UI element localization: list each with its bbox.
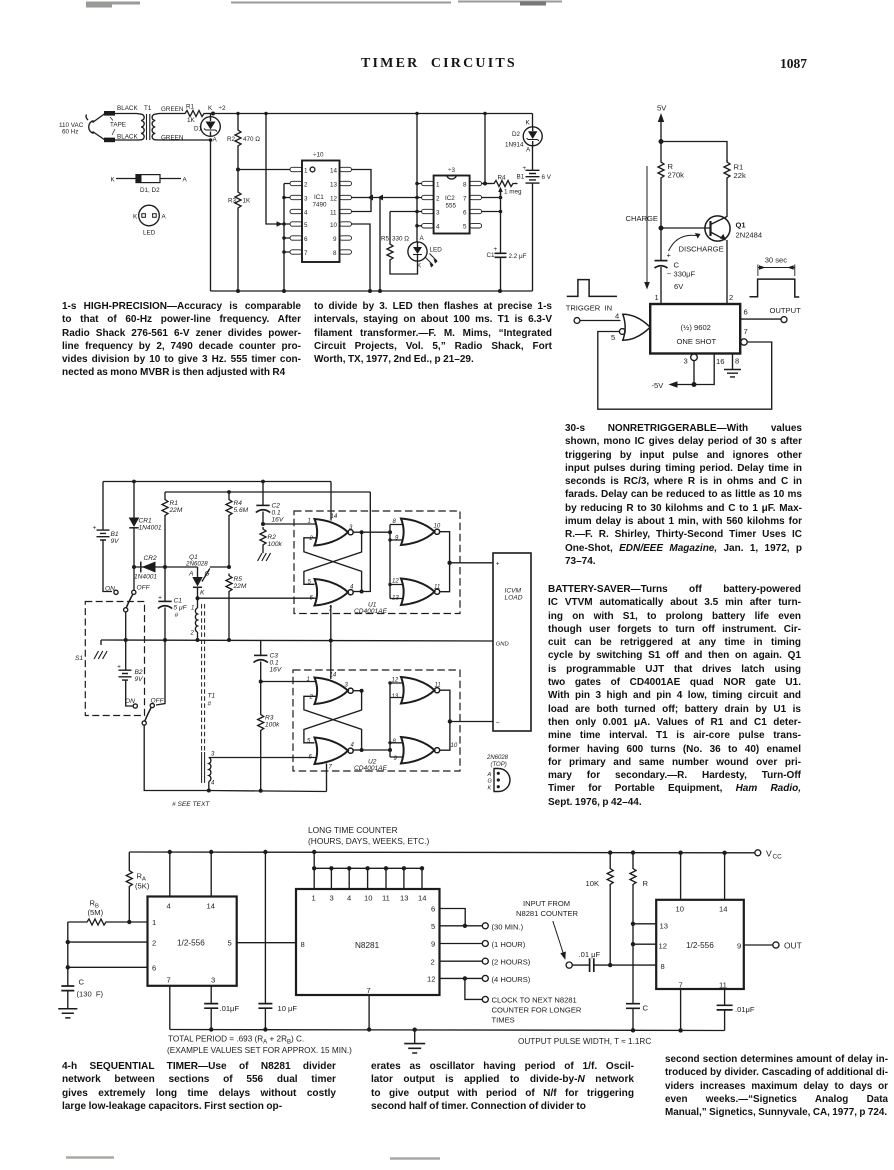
wire IC1 pin 12 row to IC2 pin 2 xyxy=(352,197,418,199)
svg-text:2: 2 xyxy=(436,196,440,203)
svg-text:R: R xyxy=(643,879,649,888)
svg-text:1/2-556: 1/2-556 xyxy=(686,941,714,950)
svg-text:5: 5 xyxy=(463,224,467,231)
svg-text:TOTAL PERIOD = .693 (RA + 2RB): TOTAL PERIOD = .693 (RA + 2RB) C. xyxy=(168,1035,304,1046)
svg-text:6: 6 xyxy=(304,236,308,243)
svg-text:14: 14 xyxy=(719,905,727,914)
svg-text:16: 16 xyxy=(716,357,724,366)
N8281 body xyxy=(296,889,440,995)
junctions on ground rail xyxy=(236,289,240,293)
svg-text:330 Ω: 330 Ω xyxy=(392,236,409,243)
U1 Vcc pin 14 from battery rail xyxy=(330,482,332,521)
wire node down to OFF contact xyxy=(133,567,135,590)
svg-text:11: 11 xyxy=(434,585,440,591)
svg-text:C1: C1 xyxy=(487,252,496,259)
svg-text:3: 3 xyxy=(436,210,440,217)
svg-text:R4: R4 xyxy=(498,175,507,182)
svg-text:1: 1 xyxy=(307,677,310,683)
wire D1 anode down to ground rail xyxy=(210,140,212,291)
U2 gate A xyxy=(315,678,354,705)
svg-text:13: 13 xyxy=(330,182,338,189)
ground symbol at rail left xyxy=(100,640,102,645)
svg-text:2: 2 xyxy=(729,293,733,302)
wire node to Q1 base xyxy=(661,227,711,229)
svg-text:+: + xyxy=(158,595,162,602)
wire Q1 K down to T1 pin 1 xyxy=(197,598,199,608)
svg-text:LED: LED xyxy=(143,230,156,237)
svg-text:7: 7 xyxy=(329,765,333,771)
svg-text:OUTPUT: OUTPUT xyxy=(770,306,802,315)
capacitor C1 xyxy=(500,191,502,254)
svg-text:CD4001AE: CD4001AE xyxy=(354,608,388,615)
svg-text:OFF: OFF xyxy=(137,585,151,592)
svg-text:D2: D2 xyxy=(512,131,521,138)
wire IC1 left bus pins 2-7 xyxy=(284,184,290,292)
svg-text:INPUT FROM: INPUT FROM xyxy=(523,899,570,908)
svg-text:22k: 22k xyxy=(734,171,746,180)
pin 9 output (1 HOUR) xyxy=(440,943,483,945)
DISCHARGE arc arrow xyxy=(669,235,697,251)
svg-text:470 Ω: 470 Ω xyxy=(243,136,260,143)
resistor R5 22M xyxy=(226,574,232,594)
svg-text:6: 6 xyxy=(431,905,435,914)
svg-text:5V: 5V xyxy=(657,104,667,113)
U2 gate C xyxy=(401,677,440,704)
svg-text:0.1: 0.1 xyxy=(270,660,279,667)
svg-text:13: 13 xyxy=(400,894,408,903)
wire to pin 12 xyxy=(633,943,656,945)
wire pin12 row tap to ground rail xyxy=(379,198,381,292)
wire IC2 pin 7 to C1 bus xyxy=(482,197,501,199)
svg-text:4: 4 xyxy=(350,585,354,591)
wire rail tap to IC2 pins 1-4 bus xyxy=(416,114,418,236)
U2 outputs 11/10 tied to load - xyxy=(440,690,450,750)
svg-text:16V: 16V xyxy=(272,517,284,524)
svg-text:5: 5 xyxy=(431,922,435,931)
transformer T1 core xyxy=(147,114,150,140)
svg-text:ICVM: ICVM xyxy=(505,588,522,595)
svg-text:A: A xyxy=(183,177,188,184)
pin 7 to bottom rail xyxy=(680,989,682,1030)
svg-text:K: K xyxy=(200,590,205,597)
caption 1 column 1 xyxy=(62,300,301,380)
svg-text:8: 8 xyxy=(393,739,397,745)
svg-text:11: 11 xyxy=(330,210,337,217)
svg-text:1N4001: 1N4001 xyxy=(139,525,162,532)
battery B2 9V xyxy=(125,640,127,670)
svg-text:# SEE TEXT: # SEE TEXT xyxy=(172,801,210,808)
pin 10 to rail xyxy=(680,853,682,900)
wire node to IC1 pin 1 xyxy=(238,169,290,171)
svg-text:8: 8 xyxy=(735,357,739,366)
resistor RA 5K xyxy=(128,852,130,869)
svg-text:12: 12 xyxy=(427,975,435,984)
svg-text:÷2: ÷2 xyxy=(219,105,226,112)
svg-text:5.6M: 5.6M xyxy=(234,507,249,514)
caption 1 column 2 xyxy=(314,300,552,366)
svg-text:1: 1 xyxy=(304,168,308,175)
ground symbol xyxy=(414,1030,416,1044)
svg-text:9V: 9V xyxy=(111,538,120,545)
black lead marker top xyxy=(104,111,115,116)
IC1 pin stubs and numbers xyxy=(290,167,352,254)
svg-text:+: + xyxy=(496,561,500,568)
svg-text:÷10: ÷10 xyxy=(313,152,324,159)
switched rail (2nd) xyxy=(165,491,370,493)
pin 11 cap .01uF xyxy=(724,989,726,1005)
wire IC1 pin 14 to pin 12 net xyxy=(352,170,372,212)
svg-text:+: + xyxy=(93,525,97,532)
svg-text:13: 13 xyxy=(392,596,399,602)
svg-text:8: 8 xyxy=(661,962,665,971)
svg-text:CC: CC xyxy=(773,854,783,861)
svg-text:11: 11 xyxy=(382,894,390,903)
svg-text:R3: R3 xyxy=(265,715,274,722)
svg-text:(5K): (5K) xyxy=(135,882,150,891)
caption 2: 30-s nonretriggerable xyxy=(565,422,802,568)
svg-text:4: 4 xyxy=(351,743,355,749)
wire node to 556a pin 1 xyxy=(129,921,147,923)
svg-text:60 Hz: 60 Hz xyxy=(62,129,78,136)
svg-text:1: 1 xyxy=(308,519,311,525)
caption 4 column 3 xyxy=(665,1053,888,1119)
svg-text:A: A xyxy=(420,235,425,242)
svg-text:14: 14 xyxy=(418,894,426,903)
pin 14 to rail xyxy=(210,852,212,897)
output waveform xyxy=(750,279,800,297)
ground rail (mid, GND) xyxy=(101,640,493,641)
svg-text:N8281: N8281 xyxy=(355,941,380,950)
capacitor C2 xyxy=(262,482,264,506)
svg-text:(30 MIN.): (30 MIN.) xyxy=(492,923,524,932)
U2 pin 7 to bottom rail xyxy=(326,764,328,792)
junctions on left bus xyxy=(282,196,286,200)
output terminal xyxy=(781,317,787,323)
capacitor C 330uF xyxy=(660,228,662,260)
svg-text:S1: S1 xyxy=(75,655,83,662)
svg-text:8: 8 xyxy=(333,250,337,257)
resistor R2 xyxy=(237,114,239,129)
svg-text:K: K xyxy=(526,120,531,127)
svg-text:2N6028: 2N6028 xyxy=(486,755,509,761)
svg-text:R5: R5 xyxy=(234,576,243,583)
svg-text:9V: 9V xyxy=(135,676,144,683)
svg-text:OUTPUT PULSE WIDTH, T ≈ 1.1RC: OUTPUT PULSE WIDTH, T ≈ 1.1RC xyxy=(518,1037,651,1046)
svg-text:2: 2 xyxy=(190,631,195,637)
svg-text:K: K xyxy=(208,105,213,112)
capacitor C3 xyxy=(260,641,262,655)
switch S1 dashed box xyxy=(85,602,144,716)
node supply xyxy=(659,139,664,144)
svg-text:(EXAMPLE VALUES SET FOR APPROX: (EXAMPLE VALUES SET FOR APPROX. 15 MIN.) xyxy=(167,1046,352,1055)
caption 3: battery-saver xyxy=(548,583,801,809)
wire R1 to node K xyxy=(206,113,213,115)
svg-text:10: 10 xyxy=(364,894,372,903)
wire pin 6 xyxy=(68,966,148,968)
svg-text:270k: 270k xyxy=(668,171,685,180)
svg-text:ONE SHOT: ONE SHOT xyxy=(677,337,717,346)
svg-text:9: 9 xyxy=(737,942,741,951)
IC1 7490 body xyxy=(302,161,340,263)
svg-text:6: 6 xyxy=(463,210,467,217)
svg-text:16V: 16V xyxy=(270,667,282,674)
svg-text:BLACK: BLACK xyxy=(117,105,138,112)
svg-text:6V: 6V xyxy=(674,282,684,291)
svg-text:3: 3 xyxy=(211,752,215,758)
wire primary bottom xyxy=(105,139,137,141)
wire T1 pin 4 to bottom rail xyxy=(208,782,210,791)
zener diode D1 xyxy=(201,117,221,137)
battery B1 xyxy=(532,146,534,171)
svg-text:K: K xyxy=(417,263,422,270)
pin 12 output (4 HOURS) xyxy=(440,977,483,979)
wire Q1 K to U1 gate B input 6 xyxy=(198,597,316,599)
svg-text:2: 2 xyxy=(304,182,308,189)
svg-text:6 V: 6 V xyxy=(542,174,552,181)
node CR1/CR2/switch xyxy=(132,565,136,569)
svg-text:7: 7 xyxy=(367,986,371,995)
U1 outputs 10/11 tied to load + xyxy=(440,532,449,592)
svg-text:A: A xyxy=(487,772,492,778)
pin 9 OUT xyxy=(744,944,773,946)
svg-text:1: 1 xyxy=(312,894,316,903)
trigger input waveform xyxy=(567,280,617,297)
svg-text:2: 2 xyxy=(152,939,156,948)
svg-text:3: 3 xyxy=(345,683,349,689)
U1 gate D xyxy=(401,579,440,606)
resistor R4 5.6M xyxy=(228,492,230,498)
svg-text:2.2 μF: 2.2 μF xyxy=(509,253,527,260)
R4 wiper arrow xyxy=(500,191,502,198)
svg-text:1: 1 xyxy=(152,918,156,927)
svg-text:TIMES: TIMES xyxy=(492,1016,515,1025)
svg-text:−: − xyxy=(667,269,672,278)
ground below C xyxy=(58,1009,77,1018)
svg-text:#: # xyxy=(175,612,179,619)
svg-text:330μF: 330μF xyxy=(674,270,696,279)
svg-text:7: 7 xyxy=(167,976,171,985)
svg-text:14: 14 xyxy=(207,902,215,911)
battery B1 9V xyxy=(102,482,104,530)
AC plug P1 xyxy=(86,114,105,141)
svg-text:N8281 COUNTER: N8281 COUNTER xyxy=(516,909,579,918)
node R2/R3/pin1 xyxy=(236,168,240,172)
wire rail tap to IC1 pin 5 xyxy=(266,114,284,225)
svg-text:CR1: CR1 xyxy=(139,518,153,525)
input terminal xyxy=(574,318,580,324)
battery supply rail (top) xyxy=(103,481,331,483)
svg-text:10K: 10K xyxy=(586,879,600,888)
node C3/R3 to U2 input 1 xyxy=(259,680,263,684)
IC2 pin stubs xyxy=(422,181,482,228)
svg-text:0.1: 0.1 xyxy=(272,510,281,517)
wire secondary top to R1 xyxy=(159,113,183,115)
svg-text:2: 2 xyxy=(309,536,314,542)
svg-text:8: 8 xyxy=(463,182,467,189)
U1 latch crossover xyxy=(354,531,362,533)
svg-text:TRIGGER IN: TRIGGER IN xyxy=(566,304,612,313)
Vcc rail (top) xyxy=(129,851,754,854)
svg-text:#: # xyxy=(208,701,212,708)
node timing xyxy=(659,226,664,231)
svg-text:GREEN: GREEN xyxy=(161,106,184,113)
svg-text:2N6028: 2N6028 xyxy=(185,561,208,568)
svg-text:Q1: Q1 xyxy=(736,221,747,230)
U1 gnd pin 7 to rail xyxy=(330,605,332,641)
svg-text:5: 5 xyxy=(307,739,311,745)
LED rays xyxy=(426,254,438,266)
wire pin 2 xyxy=(68,941,148,943)
svg-text:3: 3 xyxy=(304,196,308,203)
svg-text:1: 1 xyxy=(655,293,659,302)
svg-text:10: 10 xyxy=(330,222,338,229)
svg-text:22M: 22M xyxy=(233,583,247,590)
caption 4 column 2 xyxy=(371,1060,634,1113)
switch S1 pole 2 OFF contact from C1 column xyxy=(156,640,165,705)
svg-text:(5M): (5M) xyxy=(88,908,104,917)
N8281 pin 7 to bottom rail xyxy=(368,995,370,1030)
svg-text:555: 555 xyxy=(446,203,457,210)
IC2 555 body xyxy=(434,176,470,234)
svg-text:4: 4 xyxy=(167,902,171,911)
svg-text:C: C xyxy=(79,978,85,987)
svg-text:2N2484: 2N2484 xyxy=(736,231,763,240)
svg-text:1K: 1K xyxy=(243,198,252,205)
svg-text:5: 5 xyxy=(304,222,308,229)
resistor R4 (adjustable) xyxy=(492,181,515,187)
svg-text:R4: R4 xyxy=(234,500,243,507)
svg-text:K: K xyxy=(133,214,138,221)
U2 output 4 to inverter inputs xyxy=(362,749,390,751)
wire top supply rail xyxy=(213,113,533,115)
junction dots on top rail xyxy=(236,112,239,115)
svg-text:.01 μF: .01 μF xyxy=(579,950,601,959)
U1 gate B xyxy=(315,579,354,606)
556 second half body xyxy=(656,900,744,989)
zener diode D2 xyxy=(532,114,534,128)
capacitor C1 xyxy=(164,567,166,601)
pin 14 to rail xyxy=(724,853,726,900)
svg-text:7: 7 xyxy=(304,250,308,257)
diode CR1 xyxy=(133,482,135,518)
svg-text:3: 3 xyxy=(684,357,688,366)
svg-text:LONG TIME COUNTER: LONG TIME COUNTER xyxy=(308,825,398,835)
svg-text:5: 5 xyxy=(611,333,615,342)
svg-text:13: 13 xyxy=(660,922,668,931)
svg-text:22M: 22M xyxy=(169,507,183,514)
svg-text:G: G xyxy=(205,571,210,578)
svg-text:IC1: IC1 xyxy=(314,194,324,201)
svg-text:(4 HOURS): (4 HOURS) xyxy=(492,975,531,984)
svg-text:-5V: -5V xyxy=(652,381,665,390)
resistor R xyxy=(632,853,634,867)
svg-text:(2 HOURS): (2 HOURS) xyxy=(492,958,531,967)
U1 gate C xyxy=(401,519,440,546)
diode CR2 xyxy=(134,566,198,568)
svg-text:CLOCK TO NEXT N8281: CLOCK TO NEXT N8281 xyxy=(492,996,577,1005)
wire IC2 pin 8 to node xyxy=(482,183,492,185)
svg-text:K: K xyxy=(488,785,492,791)
svg-text:+: + xyxy=(117,664,121,671)
clock out xyxy=(465,978,482,999)
resistor R2 100k xyxy=(260,527,266,547)
node A xyxy=(209,138,213,142)
svg-text:C: C xyxy=(643,1004,649,1013)
svg-text:R2: R2 xyxy=(227,136,236,143)
svg-text:(TOP): (TOP) xyxy=(491,762,507,768)
OR gate input xyxy=(623,314,650,340)
CHARGE arrow xyxy=(646,166,648,284)
resistor R5 with loop xyxy=(389,212,391,243)
U2 gate B xyxy=(315,738,354,765)
resistor R3 xyxy=(237,170,239,191)
svg-text:T1: T1 xyxy=(144,105,152,112)
svg-text:7: 7 xyxy=(679,981,683,990)
svg-text:4: 4 xyxy=(436,224,440,231)
pin 7 to bottom rail xyxy=(169,986,171,1030)
leader arrow to input terminal xyxy=(553,921,563,953)
N8281 top bus xyxy=(314,852,422,889)
coupling cap .01uF xyxy=(572,964,589,966)
svg-text:÷3: ÷3 xyxy=(448,167,455,174)
svg-text:3: 3 xyxy=(330,894,334,903)
svg-text:10: 10 xyxy=(676,905,684,914)
svg-text:(HOURS, DAYS, WEEKS, ETC.): (HOURS, DAYS, WEEKS, ETC.) xyxy=(308,836,430,846)
svg-text:R2: R2 xyxy=(268,534,277,541)
svg-text:K: K xyxy=(111,177,116,184)
bottom rail xyxy=(209,791,327,792)
svg-text:OUT: OUT xyxy=(784,941,802,951)
svg-text:6: 6 xyxy=(152,964,156,973)
wire IC2 pin 6 to C1 bus xyxy=(482,211,501,213)
svg-text:.01μF: .01μF xyxy=(220,1004,240,1013)
U2 dashed box xyxy=(293,670,460,771)
node C2/R2 to U1 input 1 xyxy=(261,522,265,526)
ground rail bottom xyxy=(211,290,533,292)
junction gate wire / R4 R5 xyxy=(227,565,231,569)
svg-text:14: 14 xyxy=(330,168,338,175)
pin 6 to pin 5 loop xyxy=(440,909,466,926)
svg-text:IC2: IC2 xyxy=(445,195,455,202)
svg-text:100k: 100k xyxy=(268,541,283,548)
svg-text:1: 1 xyxy=(436,182,440,189)
svg-text:5 μF: 5 μF xyxy=(174,605,188,612)
svg-text:1N4001: 1N4001 xyxy=(134,574,157,581)
svg-text:CHARGE: CHARGE xyxy=(626,214,659,223)
resistor R3 100k xyxy=(260,682,262,713)
U1 gate A xyxy=(315,519,354,546)
one-shot 9602 body xyxy=(650,304,740,354)
svg-text:D1, D2: D1, D2 xyxy=(140,187,160,194)
wire primary top xyxy=(105,113,137,115)
svg-text:LOAD: LOAD xyxy=(505,595,523,602)
junction R1/C1 on CR2 wire xyxy=(163,565,167,569)
resistor R 270k xyxy=(660,142,662,161)
U1 output 3 to inverter inputs xyxy=(362,531,390,533)
svg-text:C: C xyxy=(674,261,680,270)
svg-text:12: 12 xyxy=(659,942,667,951)
resistor 10K xyxy=(609,853,611,867)
input terminal xyxy=(566,962,572,968)
svg-text:R1: R1 xyxy=(170,500,179,507)
svg-text:1K: 1K xyxy=(187,117,196,124)
ground below R2 xyxy=(258,553,271,561)
U2 latch crossover xyxy=(354,690,362,692)
svg-text:2: 2 xyxy=(309,695,314,701)
resistor R1 xyxy=(183,111,206,117)
svg-text:B1: B1 xyxy=(517,174,525,181)
svg-text:5: 5 xyxy=(228,939,232,948)
